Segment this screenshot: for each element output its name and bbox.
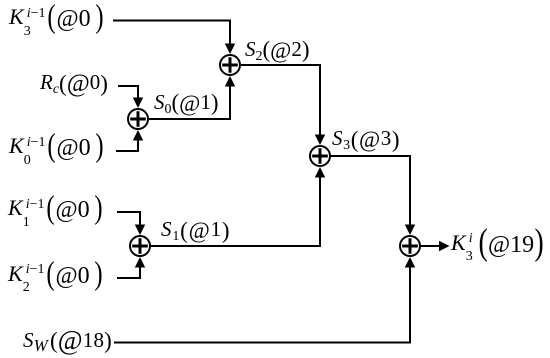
wire S0 output <box>148 86 230 120</box>
node S1(@1) label <box>161 217 230 257</box>
arrow into final XOR top <box>405 225 415 236</box>
wire S2 output <box>240 64 320 135</box>
arrow into final XOR bottom <box>405 257 415 268</box>
node K1^{i-1}(@0) input label <box>8 189 104 229</box>
arrow into S2 bottom <box>225 76 235 87</box>
arrow into S0 top <box>133 98 143 109</box>
XOR gate S0 <box>128 109 148 129</box>
arrow into S3 top <box>315 135 325 146</box>
XOR gate S1 <box>130 236 150 256</box>
XOR gate S3 <box>310 146 330 166</box>
wire K3^{i-1} input <box>113 20 230 45</box>
node S2(@2) label <box>245 37 310 77</box>
node SW(@18) input label <box>23 325 112 358</box>
node S0(@1) label <box>154 90 219 130</box>
XOR gate final <box>400 236 420 256</box>
arrow into S1 bottom <box>135 257 145 268</box>
wire S3 output <box>330 155 410 225</box>
arrow to K3^i label <box>439 241 450 251</box>
wire K3^i output <box>420 245 440 247</box>
arrow into S3 bottom <box>315 167 325 178</box>
node S3(@3) label <box>332 126 400 166</box>
wire Rc input <box>118 85 138 98</box>
wire K2^{i-1} input <box>117 267 140 279</box>
node Rc(@0) input label <box>40 69 108 109</box>
node K3^i(@19) output label <box>451 220 545 260</box>
arrow into S0 bottom <box>133 130 143 141</box>
node K2^{i-1}(@0) input label <box>8 255 104 295</box>
wire K1^{i-1} input <box>117 211 140 225</box>
arrow into S2 top <box>225 44 235 55</box>
arrow into S1 top <box>135 225 145 236</box>
wire SW input <box>114 267 410 344</box>
wire K0^{i-1} input <box>116 140 138 152</box>
wire S1 output <box>150 177 320 247</box>
XOR gate S2 <box>220 55 240 75</box>
node K0^{i-1}(@0) input label <box>9 127 105 167</box>
node K3^{i-1}(@0) input label <box>9 0 105 38</box>
